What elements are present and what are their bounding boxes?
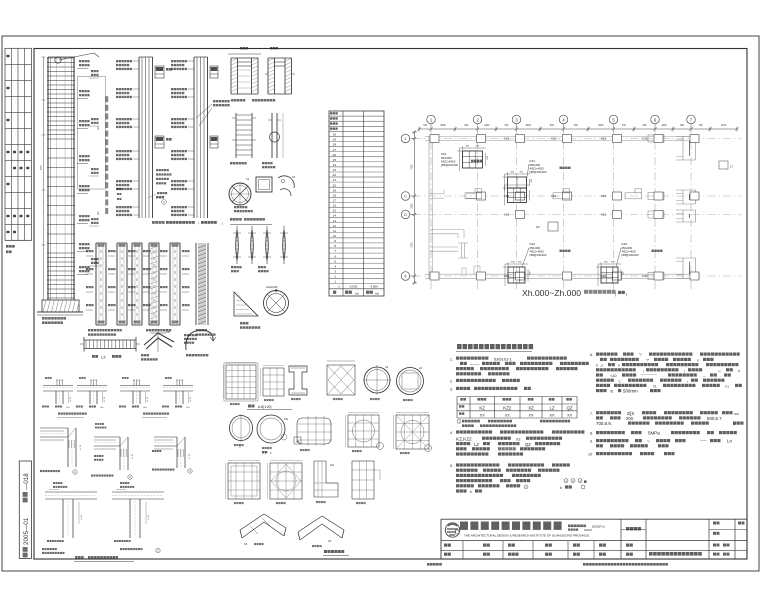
svg-text:300: 300	[643, 124, 648, 127]
corner joint details row C	[40, 423, 192, 479]
joint details J1 J2 caption	[231, 99, 275, 102]
institute english name	[464, 533, 589, 537]
svg-text:7.: 7.	[590, 412, 593, 416]
svg-text:12: 12	[333, 224, 337, 228]
floor plan left grid bubbles	[401, 134, 415, 280]
svg-text:20: 20	[333, 183, 337, 187]
svg-text:KZ1: KZ1	[504, 274, 510, 278]
svg-text:KZ1: KZ1	[504, 194, 510, 198]
svg-text:[Φ8@100/200: [Φ8@100/200	[441, 163, 458, 167]
floor plan right wall segments	[676, 136, 696, 278]
column section change tee details row	[42, 377, 193, 418]
svg-text:·: ·	[654, 445, 655, 449]
svg-text:10: 10	[333, 234, 337, 238]
caption figure-2 splice method	[152, 221, 223, 226]
note 5	[450, 463, 587, 494]
beam-column joint detail J1	[228, 47, 261, 94]
svg-text:>1.5L: >1.5L	[188, 453, 191, 459]
svg-text:700.8.9,: 700.8.9,	[596, 421, 612, 426]
svg-text:2.: 2.	[450, 380, 453, 384]
svg-text:·: ·	[660, 453, 661, 457]
svg-text:LZ: LZ	[101, 355, 106, 360]
floor plan wall pier stubs row C	[465, 189, 642, 199]
lower strips labels	[88, 329, 216, 336]
svg-text:KZ: KZ	[536, 225, 540, 229]
svg-text:03G101-1: 03G101-1	[494, 357, 513, 362]
floor plan top dimension line	[417, 124, 738, 132]
svg-text:24d: 24d	[284, 418, 289, 421]
lap weld detail J4	[262, 113, 283, 168]
svg-text:"/": "/"	[639, 353, 642, 357]
svg-text:-1: -1	[337, 285, 340, 289]
svg-text:29: 29	[333, 138, 337, 142]
svg-text:Hn: Hn	[96, 126, 100, 130]
section E circle	[363, 365, 391, 400]
floor plan perimeter walls	[425, 136, 700, 278]
svg-text:>1.5L: >1.5L	[69, 396, 72, 402]
note 3	[450, 387, 531, 392]
svg-text:700: 700	[699, 124, 704, 127]
svg-text:5MPa: 5MPa	[648, 431, 660, 436]
svg-text:KZ1: KZ1	[504, 213, 510, 217]
svg-text:"L": "L"	[618, 379, 622, 383]
svg-text:700: 700	[423, 124, 428, 127]
svg-text:XX: XX	[528, 414, 534, 418]
svg-text:3000: 3000	[440, 124, 446, 127]
svg-text:4.500: 4.500	[370, 285, 378, 289]
plan column annotation blocks	[441, 152, 662, 267]
svg-text:KZ1: KZ1	[551, 194, 557, 198]
svg-text:-: -	[720, 374, 721, 378]
svg-text:O1: O1	[725, 385, 729, 389]
svg-text:d: d	[738, 369, 740, 373]
svg-text:1.: 1.	[450, 358, 453, 362]
svg-text:7050: 7050	[412, 164, 414, 170]
svg-text:10: 10	[588, 453, 592, 457]
svg-text:<4d: <4d	[143, 406, 146, 409]
floor plan vertical grid lines	[431, 126, 691, 290]
svg-text:17: 17	[333, 199, 337, 203]
note 4	[450, 430, 584, 455]
note 7	[590, 411, 744, 426]
note 10	[588, 452, 675, 457]
svg-text:18: 18	[333, 193, 337, 197]
column elevation detail ladder Zhu-1	[41, 53, 100, 300]
note 9	[590, 438, 732, 449]
svg-text:8.: 8.	[590, 432, 593, 436]
svg-text:7050: 7050	[412, 242, 414, 248]
rotated general note beside ladder	[0, 96, 108, 317]
svg-text:—018: —018	[23, 473, 30, 490]
svg-text:KZ1: KZ1	[643, 137, 649, 141]
svg-text:b: b	[560, 486, 562, 490]
floor plan horizontal grid lines	[413, 139, 742, 277]
title block cell labels	[444, 522, 744, 556]
note 1	[450, 357, 589, 376]
svg-text:28: 28	[333, 143, 337, 147]
section C I-beam	[289, 366, 307, 400]
svg-text:6.: 6.	[590, 353, 593, 357]
svg-text:500,6.7: 500,6.7	[707, 416, 722, 421]
svg-text:9.: 9.	[590, 440, 593, 444]
svg-text:21: 21	[333, 178, 337, 182]
svg-text:4Φ22+4Φ20: 4Φ22+4Φ20	[441, 159, 456, 163]
svg-text:KZ: KZ	[479, 406, 485, 411]
svg-text:·: ·	[692, 438, 693, 442]
svg-text:h: h	[470, 490, 472, 494]
svg-text:<4d: <4d	[66, 406, 69, 409]
svg-text:LZ: LZ	[474, 442, 479, 447]
caption figure-13	[74, 556, 134, 562]
section row3 grid square K	[268, 461, 303, 505]
floor plan grid bubbles top	[427, 115, 696, 129]
svg-text:THE ARCHITECTURAL DESIGN & RES: THE ARCHITECTURAL DESIGN & RESEARCH INST…	[464, 533, 589, 537]
svg-text:XZ: XZ	[516, 438, 521, 442]
caption all section forms	[323, 550, 349, 556]
svg-text:23: 23	[333, 168, 337, 172]
svg-text:4Φ22+4Φ20: 4Φ22+4Φ20	[530, 249, 545, 253]
svg-text:4800: 4800	[41, 164, 43, 170]
svg-text:(m): (m)	[375, 291, 379, 295]
svg-text:): )	[222, 222, 223, 226]
svg-text:[2003]7-s]: [2003]7-s]	[592, 525, 605, 529]
section row3 grid square J	[226, 461, 261, 505]
section row3 L-section	[314, 461, 338, 503]
title block frame	[441, 519, 747, 559]
svg-text:/6: /6	[610, 390, 613, 394]
svg-text:[Φ8@100/200: [Φ8@100/200	[622, 253, 639, 257]
svg-text:300: 300	[464, 124, 469, 127]
svg-text:300: 300	[574, 124, 579, 127]
svg-text:14: 14	[333, 214, 337, 218]
column splice strips group B	[171, 57, 218, 218]
plan caption	[522, 288, 627, 298]
svg-text:>1.5L: >1.5L	[147, 514, 150, 520]
svg-text:XX: XX	[480, 414, 486, 418]
svg-text:900: 900	[550, 124, 555, 127]
svg-text:2250: 2250	[412, 203, 414, 209]
svg-text:C: C	[404, 194, 407, 199]
institute logo	[445, 523, 459, 537]
svg-text:QZ: QZ	[566, 406, 572, 411]
note 3 column type table	[457, 397, 577, 419]
svg-text:4.: 4.	[450, 431, 453, 435]
svg-text:/3.: /3.	[653, 385, 657, 389]
mid requirements text block	[117, 169, 171, 204]
svg-text:700: 700	[504, 124, 509, 127]
svg-text:650x600: 650x600	[622, 246, 633, 250]
svg-text:b: b	[596, 364, 598, 368]
stirrup cage detail J3	[230, 113, 256, 164]
svg-text:>1.5L: >1.5L	[189, 396, 192, 402]
svg-text:XX: XX	[567, 414, 573, 418]
svg-text:650x600: 650x600	[530, 246, 541, 250]
section row2 circle F	[257, 415, 289, 455]
svg-text:300: 300	[680, 124, 685, 127]
svg-text:·: ·	[606, 374, 607, 378]
stirrup ladder detail LZ	[80, 337, 140, 360]
svg-text:4Φ22+4Φ20: 4Φ22+4Φ20	[622, 249, 637, 253]
svg-text:<10: <10	[610, 374, 616, 378]
svg-text:KZ1: KZ1	[504, 137, 510, 141]
column footing	[37, 300, 83, 324]
svg-text:1900: 1900	[661, 124, 667, 127]
svg-text:n: n	[697, 359, 699, 363]
svg-text:h: h	[618, 364, 620, 368]
section row4 chevron P	[298, 516, 344, 547]
svg-text:KZ1: KZ1	[601, 137, 607, 141]
svg-text:650x600: 650x600	[441, 156, 452, 160]
svg-text:KZ2: KZ2	[503, 406, 512, 411]
bottom copyright line	[427, 563, 668, 566]
svg-text:16: 16	[333, 204, 337, 208]
svg-text:| |: | |	[718, 369, 721, 373]
svg-text:QZ: QZ	[525, 442, 531, 447]
svg-text:): )	[626, 293, 627, 297]
section F circle square	[397, 367, 424, 401]
column splice strips group A	[116, 57, 172, 218]
svg-text:——: ——	[700, 439, 707, 443]
svg-text:A.B(1:20): A.B(1:20)	[258, 405, 271, 409]
svg-text:<4d: <4d	[100, 406, 103, 409]
svg-text:>1.5L: >1.5L	[131, 453, 134, 459]
section row2 rounded square G	[294, 416, 332, 451]
svg-text:[Φ8@100/200: [Φ8@100/200	[530, 253, 547, 257]
svg-text:650x600: 650x600	[530, 163, 541, 167]
svg-text:4200: 4200	[484, 124, 490, 127]
svg-text:(m): (m)	[355, 291, 359, 295]
svg-text:>1.5L: >1.5L	[79, 444, 82, 450]
signature table strip top-left	[5, 48, 32, 253]
svg-text:KZ1: KZ1	[601, 194, 607, 198]
svg-text:>1.5L: >1.5L	[103, 396, 106, 402]
svg-text:>1.5L: >1.5L	[80, 514, 83, 520]
svg-text:24: 24	[333, 163, 337, 167]
hook anchor detail	[184, 330, 216, 356]
svg-text:A: A	[163, 200, 165, 204]
anchor details row D	[42, 482, 164, 554]
note 8	[590, 431, 737, 436]
caption figure-3 stirrup methods	[230, 218, 272, 225]
svg-text:—: —	[703, 374, 706, 378]
svg-text:—————: —————	[641, 373, 658, 377]
certificate text	[568, 525, 605, 533]
svg-text:5.: 5.	[450, 464, 453, 468]
svg-text:KZ1: KZ1	[601, 274, 607, 278]
section A grid square	[224, 363, 259, 406]
svg-text:3000: 3000	[598, 124, 604, 127]
svg-text:<4d: <4d	[186, 406, 189, 409]
svg-text:26: 26	[333, 153, 337, 157]
svg-text:22: 22	[333, 173, 337, 177]
svg-text:KZ1: KZ1	[551, 137, 557, 141]
svg-text:11: 11	[333, 229, 336, 233]
svg-text:4Φ22+4Φ20: 4Φ22+4Φ20	[530, 166, 545, 170]
svg-text:500: 500	[734, 412, 739, 416]
note 3 table footnotes	[457, 419, 570, 427]
svg-text:>1.5L: >1.5L	[146, 396, 149, 402]
stirrup bend chevron detail	[141, 329, 174, 361]
svg-text:XX: XX	[505, 414, 511, 418]
section D square diamond	[327, 361, 355, 400]
svg-text:27: 27	[333, 148, 337, 152]
stirrup forms detail circle+square	[229, 176, 296, 212]
welded stirrup joint circle detail	[234, 285, 289, 329]
svg-text:2700: 2700	[721, 124, 727, 127]
svg-text:XZ: XZ	[528, 406, 534, 411]
leader note pointing to strips	[196, 100, 230, 126]
floor plan grid6 wall stubs	[648, 135, 664, 280]
floor plan large column sections	[458, 146, 625, 287]
section row2 ellipse E	[230, 414, 253, 449]
svg-text:700: 700	[622, 124, 627, 127]
plan small column labels	[504, 137, 734, 279]
svg-text:d≥2d(≥30): d≥2d(≥30)	[266, 285, 278, 289]
section row2 grid square I	[394, 413, 432, 455]
svg-text:———: ———	[470, 363, 480, 367]
svg-text:Hn: Hn	[96, 211, 100, 215]
svg-text:(: (	[198, 221, 199, 225]
svg-text:,n: ,n	[600, 364, 603, 368]
svg-text:D: D	[404, 212, 407, 217]
svg-text:200.: 200.	[626, 416, 634, 421]
svg-text:2005—01: 2005—01	[23, 517, 30, 545]
svg-text:KZ1: KZ1	[601, 213, 607, 217]
svg-text:KZ1: KZ1	[643, 274, 649, 278]
svg-text:XX: XX	[549, 414, 555, 418]
beam-column joint detail J2	[265, 47, 295, 94]
svg-text:LZ: LZ	[549, 406, 554, 411]
note 6	[590, 353, 742, 394]
section A label underline	[247, 405, 292, 410]
floor plan left dimension line	[412, 130, 418, 284]
floor plan stair core walls	[429, 190, 481, 274]
svg-text:30: 30	[333, 133, 337, 137]
svg-text:[Φ8@100/200: [Φ8@100/200	[530, 170, 547, 174]
svg-text:3000: 3000	[526, 124, 532, 127]
svg-text:"r": "r"	[647, 440, 650, 444]
note 2	[450, 379, 520, 384]
svg-text:L7: L7	[730, 165, 734, 169]
floor plan column squares	[430, 135, 699, 281]
section B grid square	[261, 366, 285, 402]
svg-text:“/”: “/”	[646, 359, 649, 363]
lower rebar strips cluster	[86, 243, 208, 325]
column elevation dimension annotations	[77, 60, 106, 275]
svg-text:KZ,KZ2: KZ,KZ2	[456, 437, 472, 442]
sheet inner border frame	[34, 49, 747, 560]
svg-text:13: 13	[333, 219, 337, 223]
svg-text:Xh.000~Zh.000: Xh.000~Zh.000	[522, 288, 581, 298]
svg-text:500mm: 500mm	[623, 389, 638, 394]
section row4 chevron O	[240, 514, 286, 546]
svg-text:012037: 012037	[584, 529, 593, 532]
section row3 tall rect M	[352, 461, 380, 504]
svg-text:19: 19	[333, 188, 337, 192]
svg-text:C8: C8	[166, 330, 170, 334]
storey level table	[329, 111, 384, 296]
ladder mid annotation stacks	[89, 70, 99, 266]
svg-text:-0.030: -0.030	[349, 285, 358, 289]
institute name	[460, 522, 562, 530]
svg-text:): )	[684, 369, 685, 373]
svg-text:15: 15	[333, 209, 337, 213]
tie bar spindle details	[231, 226, 288, 272]
svg-text:3.: 3.	[450, 388, 453, 392]
notes title	[456, 344, 533, 352]
svg-text:Ln: Ln	[727, 439, 732, 444]
drawing number strip bottom-left	[19, 461, 31, 558]
section row2 grid square H	[346, 413, 384, 453]
svg-text:25: 25	[333, 158, 337, 162]
